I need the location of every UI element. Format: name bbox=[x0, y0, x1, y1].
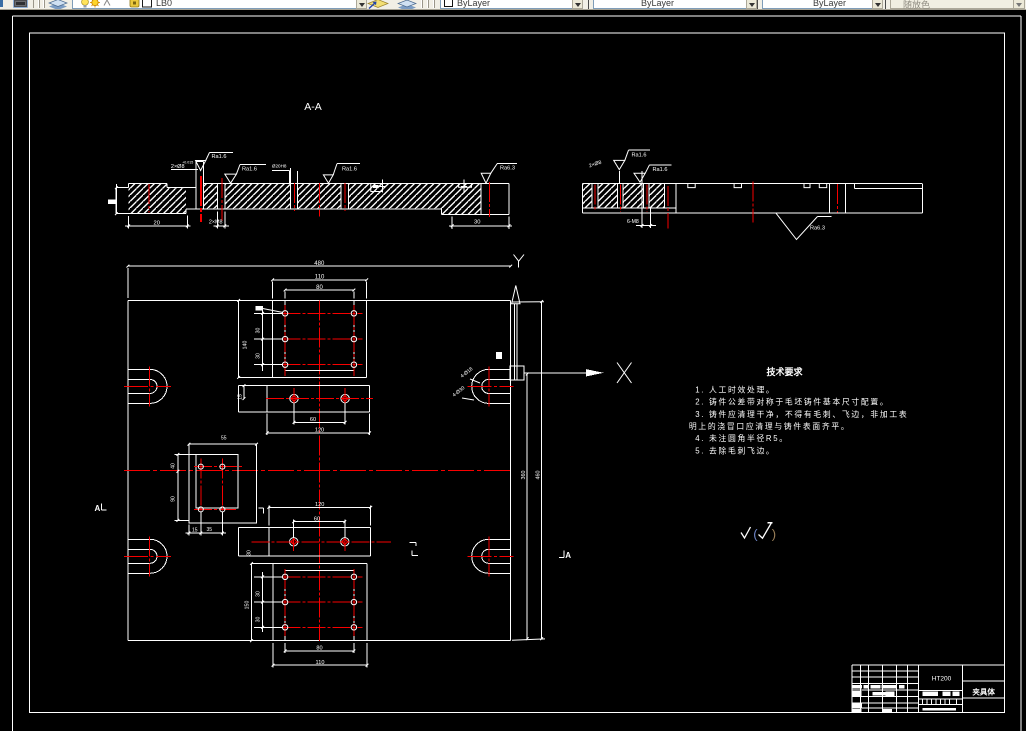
svg-text:60: 60 bbox=[314, 516, 320, 522]
svg-text:40: 40 bbox=[171, 463, 177, 469]
svg-text:30: 30 bbox=[247, 550, 253, 556]
svg-text:110: 110 bbox=[315, 275, 325, 281]
svg-text:5. 去除毛刺飞边。: 5. 去除毛刺飞边。 bbox=[695, 446, 775, 456]
svg-text:Ra6.3: Ra6.3 bbox=[500, 166, 515, 172]
svg-text:技术要求: 技术要求 bbox=[766, 366, 803, 377]
svg-text:110: 110 bbox=[316, 660, 325, 666]
svg-text:Ra1.6: Ra1.6 bbox=[653, 167, 668, 173]
svg-text:Ø20H8: Ø20H8 bbox=[272, 163, 287, 168]
svg-text:80: 80 bbox=[316, 646, 322, 652]
svg-text:夹具体: 夹具体 bbox=[972, 686, 995, 696]
svg-text:60: 60 bbox=[310, 417, 316, 423]
svg-text:15: 15 bbox=[238, 394, 244, 400]
svg-text:2×M8: 2×M8 bbox=[209, 220, 223, 226]
svg-text:(: ( bbox=[753, 527, 758, 542]
svg-text:A: A bbox=[565, 551, 571, 560]
svg-text:Ra6.3: Ra6.3 bbox=[810, 226, 825, 232]
svg-text:35: 35 bbox=[207, 527, 213, 533]
svg-text:30: 30 bbox=[256, 617, 262, 623]
svg-text:460: 460 bbox=[536, 471, 542, 480]
svg-text:480: 480 bbox=[314, 261, 325, 267]
svg-text:A-A: A-A bbox=[304, 101, 322, 113]
svg-text:Ra1.6: Ra1.6 bbox=[342, 167, 357, 173]
svg-text:30: 30 bbox=[256, 591, 262, 597]
svg-text:2. 铸件公差带对称于毛坯铸件基本尺寸配置。: 2. 铸件公差带对称于毛坯铸件基本尺寸配置。 bbox=[695, 397, 889, 407]
svg-text:1. 人工时效处理。: 1. 人工时效处理。 bbox=[695, 384, 775, 394]
svg-text:): ) bbox=[772, 527, 776, 542]
svg-text:Ra1.6: Ra1.6 bbox=[632, 152, 647, 158]
svg-text:30: 30 bbox=[256, 353, 262, 359]
svg-text:30: 30 bbox=[474, 220, 480, 226]
svg-text:360: 360 bbox=[521, 471, 527, 480]
svg-text:120: 120 bbox=[315, 428, 324, 434]
svg-text:120: 120 bbox=[315, 502, 324, 508]
svg-text:20: 20 bbox=[154, 220, 160, 226]
svg-text:90: 90 bbox=[171, 496, 177, 502]
svg-text:6-M8: 6-M8 bbox=[627, 219, 639, 225]
svg-text:15: 15 bbox=[192, 528, 198, 534]
svg-text:140: 140 bbox=[243, 341, 249, 350]
svg-text:30: 30 bbox=[256, 328, 262, 334]
svg-text:Ra1.6: Ra1.6 bbox=[242, 167, 257, 173]
svg-text:+0.015: +0.015 bbox=[182, 160, 193, 164]
svg-text:55: 55 bbox=[221, 436, 227, 442]
svg-text:4. 未注圆角半径R5。: 4. 未注圆角半径R5。 bbox=[695, 433, 789, 443]
svg-text:A: A bbox=[95, 504, 101, 513]
svg-text:明上的浇冒口应清理与铸件表面齐平。: 明上的浇冒口应清理与铸件表面齐平。 bbox=[689, 421, 850, 431]
svg-text:150: 150 bbox=[245, 601, 251, 610]
svg-text:80: 80 bbox=[316, 285, 323, 291]
svg-text:HT200: HT200 bbox=[932, 676, 952, 683]
svg-text:Ra1.6: Ra1.6 bbox=[212, 154, 227, 160]
svg-text:3. 铸件应清理干净，不得有毛刺、飞边，非加工表: 3. 铸件应清理干净，不得有毛刺、飞边，非加工表 bbox=[695, 409, 908, 419]
